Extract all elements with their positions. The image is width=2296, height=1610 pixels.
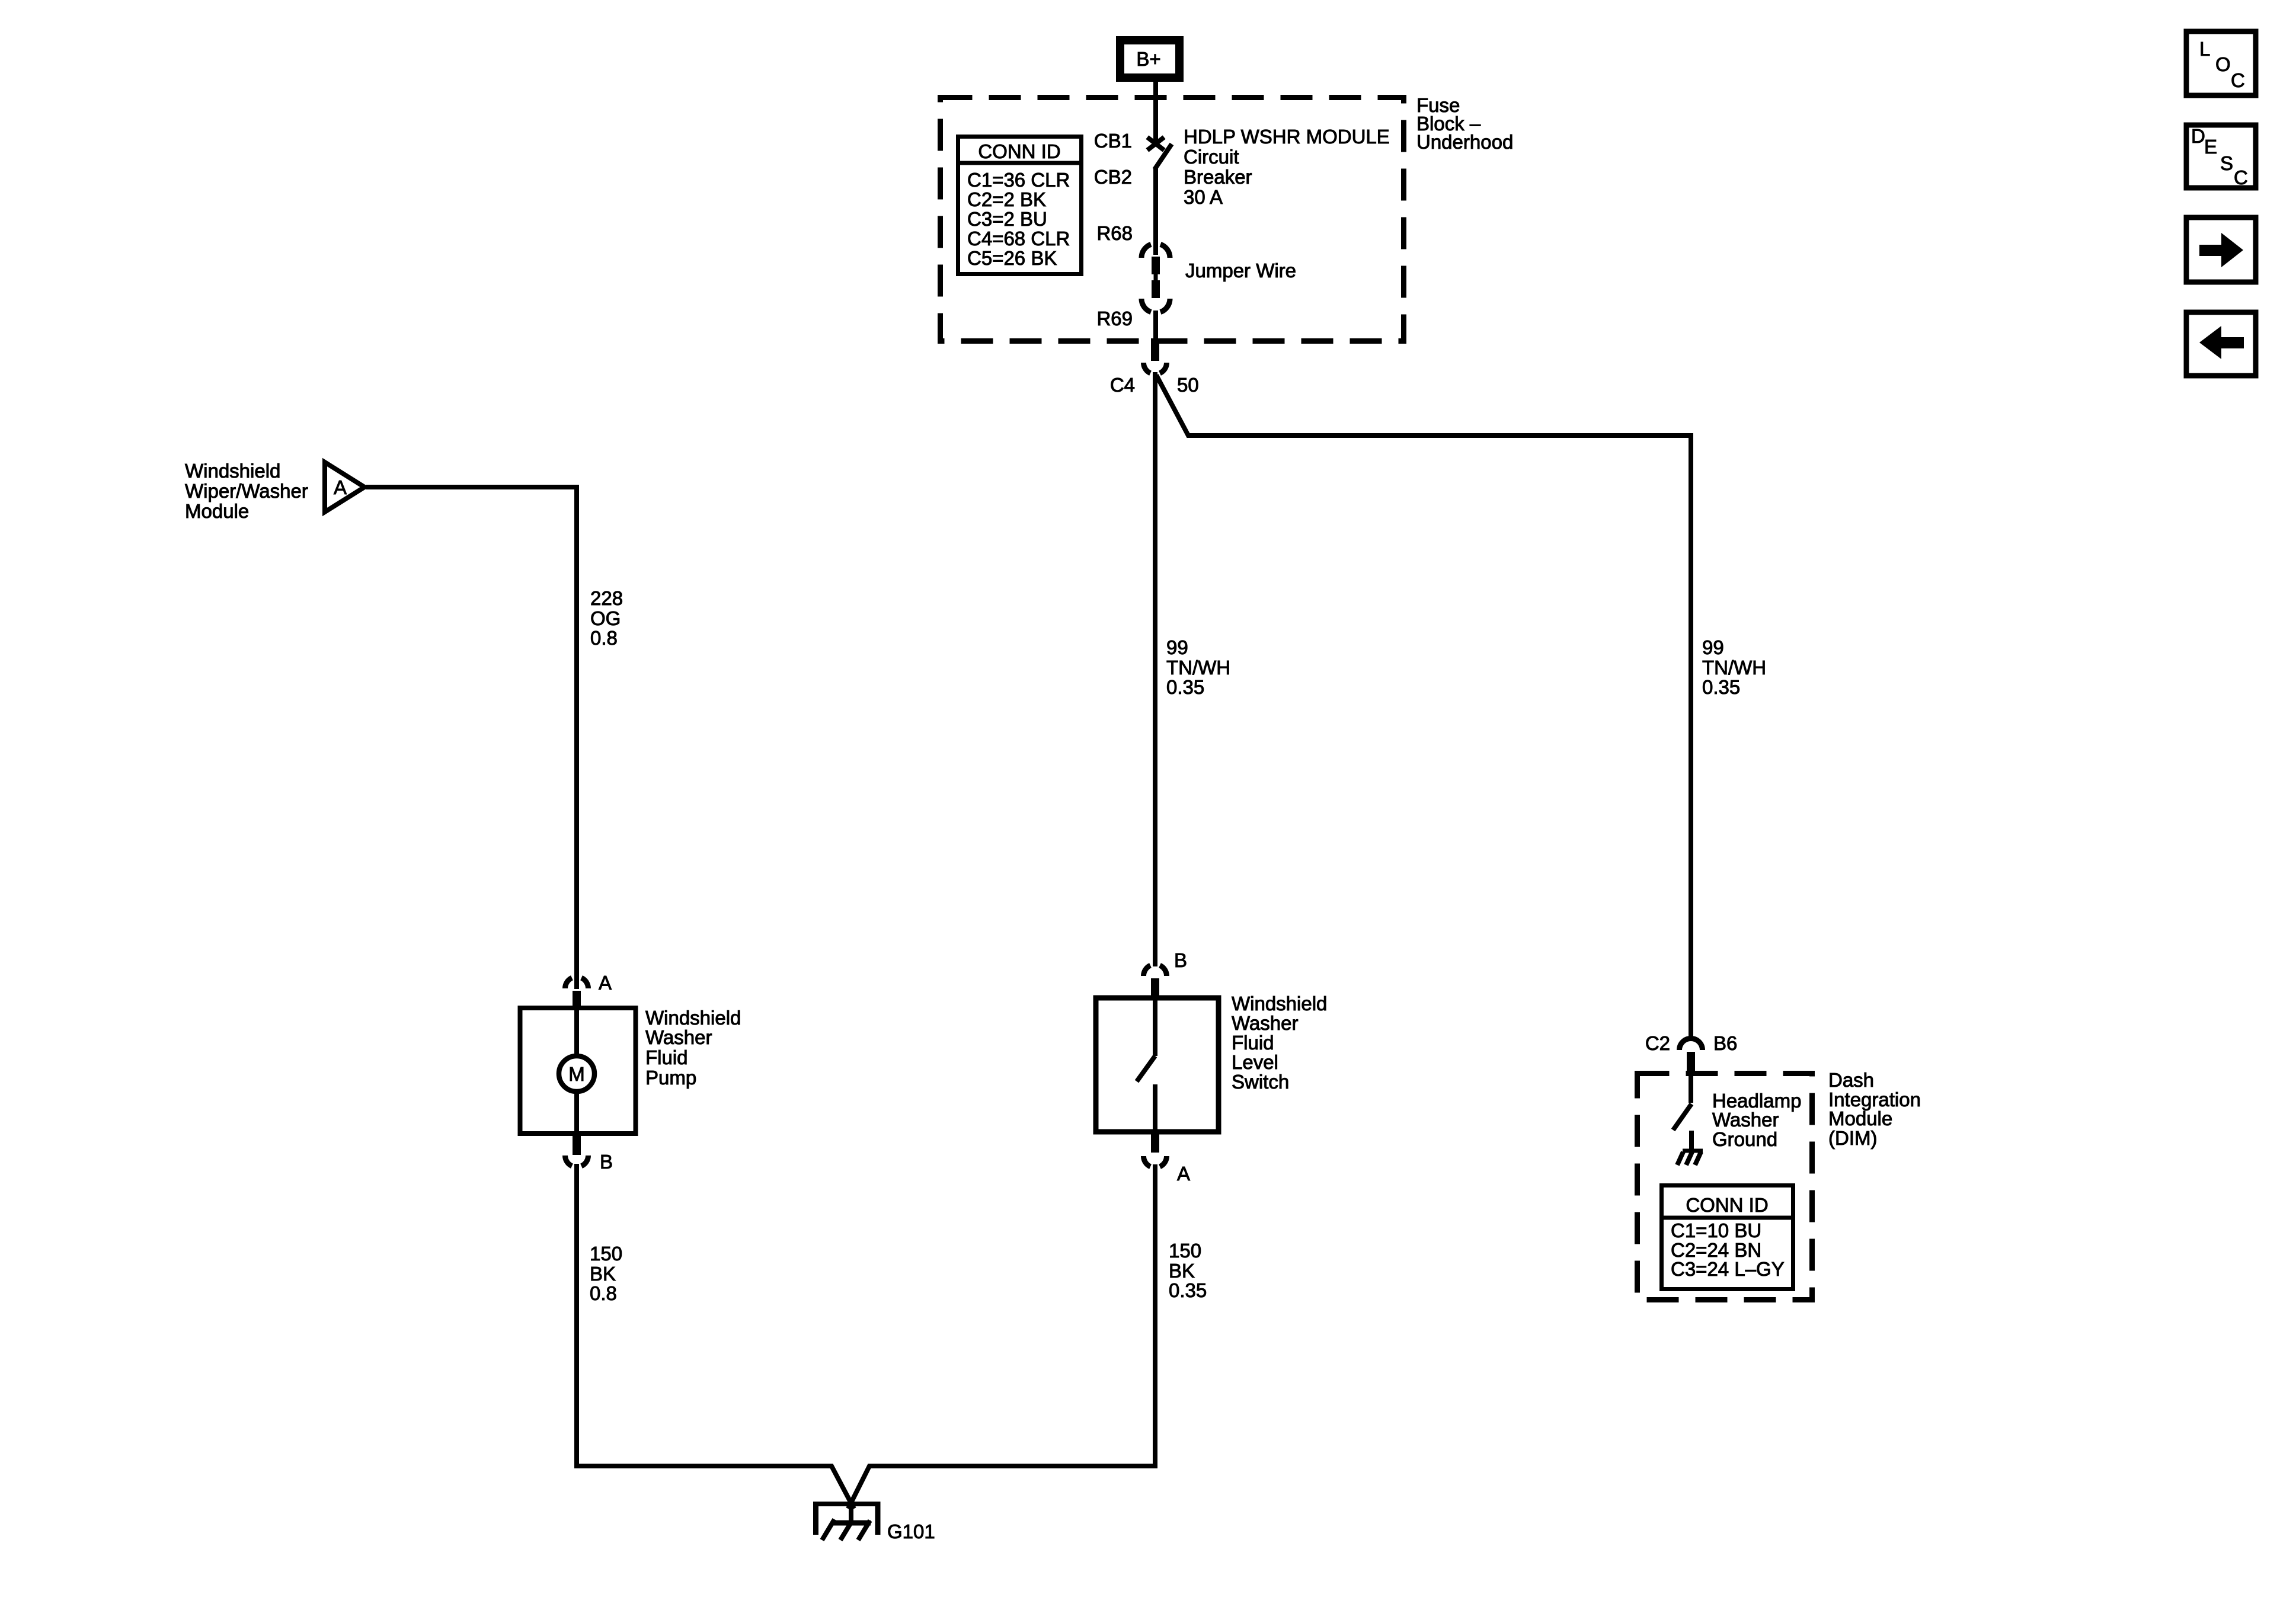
- svg-text:Fluid: Fluid: [1232, 1032, 1274, 1054]
- svg-text:Jumper Wire: Jumper Wire: [1185, 260, 1296, 281]
- svg-text:C2: C2: [1645, 1032, 1670, 1054]
- svg-text:Dash: Dash: [1828, 1069, 1874, 1091]
- svg-text:CONN ID: CONN ID: [1686, 1194, 1768, 1216]
- svg-text:BK: BK: [1169, 1260, 1195, 1282]
- svg-text:A: A: [599, 972, 612, 994]
- svg-text:Underhood: Underhood: [1416, 131, 1513, 153]
- svg-text:150: 150: [1169, 1240, 1201, 1262]
- svg-text:B: B: [600, 1151, 613, 1173]
- svg-text:Washer: Washer: [1232, 1012, 1298, 1034]
- svg-text:0.8: 0.8: [590, 627, 618, 649]
- svg-text:L: L: [2199, 38, 2210, 60]
- svg-text:Circuit: Circuit: [1184, 146, 1239, 168]
- svg-text:30 A: 30 A: [1184, 186, 1223, 208]
- svg-text:Module: Module: [1828, 1108, 1892, 1129]
- svg-text:A: A: [334, 476, 347, 498]
- svg-text:Breaker: Breaker: [1184, 166, 1252, 188]
- svg-text:Fluid: Fluid: [645, 1046, 688, 1068]
- svg-text:TN/WH: TN/WH: [1166, 657, 1230, 678]
- svg-text:C3=24 L–GY: C3=24 L–GY: [1671, 1258, 1785, 1280]
- svg-text:Washer: Washer: [1712, 1109, 1779, 1131]
- svg-text:C5=26 BK: C5=26 BK: [967, 247, 1057, 269]
- svg-text:E: E: [2204, 136, 2217, 158]
- svg-text:BK: BK: [590, 1263, 616, 1285]
- svg-text:Windshield: Windshield: [645, 1007, 741, 1029]
- svg-text:C2=2 BK: C2=2 BK: [967, 188, 1046, 210]
- svg-text:0.35: 0.35: [1166, 676, 1204, 698]
- svg-text:C4=68 CLR: C4=68 CLR: [967, 228, 1070, 249]
- svg-text:C3=2 BU: C3=2 BU: [967, 208, 1047, 230]
- svg-text:99: 99: [1166, 636, 1188, 658]
- svg-text:O: O: [2215, 53, 2231, 75]
- svg-text:R69: R69: [1096, 308, 1133, 329]
- svg-text:A: A: [1177, 1163, 1190, 1185]
- svg-text:HDLP WSHR MODULE: HDLP WSHR MODULE: [1184, 126, 1390, 148]
- svg-text:Ground: Ground: [1712, 1128, 1777, 1150]
- svg-text:0.8: 0.8: [590, 1282, 617, 1304]
- svg-text:C1=10 BU: C1=10 BU: [1671, 1219, 1761, 1241]
- svg-text:B: B: [1174, 949, 1187, 971]
- svg-text:99: 99: [1702, 636, 1724, 658]
- svg-text:B+: B+: [1136, 48, 1160, 70]
- svg-text:S: S: [2220, 152, 2233, 174]
- svg-text:0.35: 0.35: [1702, 676, 1740, 698]
- svg-text:OG: OG: [590, 607, 621, 629]
- svg-text:C: C: [2234, 167, 2248, 188]
- svg-text:Level: Level: [1232, 1051, 1278, 1073]
- svg-text:150: 150: [590, 1243, 622, 1265]
- svg-text:D: D: [2191, 125, 2205, 147]
- svg-text:CONN ID: CONN ID: [978, 140, 1060, 162]
- svg-text:C1=36 CLR: C1=36 CLR: [967, 169, 1070, 191]
- svg-text:50: 50: [1177, 374, 1199, 396]
- svg-text:CB1: CB1: [1094, 130, 1132, 152]
- svg-text:C4: C4: [1110, 374, 1135, 396]
- svg-text:Pump: Pump: [645, 1067, 696, 1089]
- svg-text:M: M: [568, 1063, 585, 1085]
- svg-text:G101: G101: [887, 1521, 935, 1542]
- svg-text:Switch: Switch: [1232, 1071, 1289, 1093]
- svg-text:(DIM): (DIM): [1828, 1127, 1877, 1149]
- svg-text:Windshield: Windshield: [185, 460, 280, 482]
- svg-text:CB2: CB2: [1094, 166, 1132, 188]
- svg-text:B6: B6: [1713, 1032, 1737, 1054]
- svg-text:R68: R68: [1096, 222, 1133, 244]
- svg-text:Washer: Washer: [645, 1026, 712, 1048]
- svg-text:Module: Module: [185, 500, 249, 522]
- svg-text:Windshield: Windshield: [1232, 993, 1327, 1014]
- svg-text:Wiper/Washer: Wiper/Washer: [185, 480, 308, 502]
- svg-text:TN/WH: TN/WH: [1702, 657, 1766, 678]
- svg-text:C: C: [2231, 69, 2245, 91]
- svg-text:0.35: 0.35: [1169, 1279, 1207, 1301]
- svg-text:228: 228: [590, 587, 623, 609]
